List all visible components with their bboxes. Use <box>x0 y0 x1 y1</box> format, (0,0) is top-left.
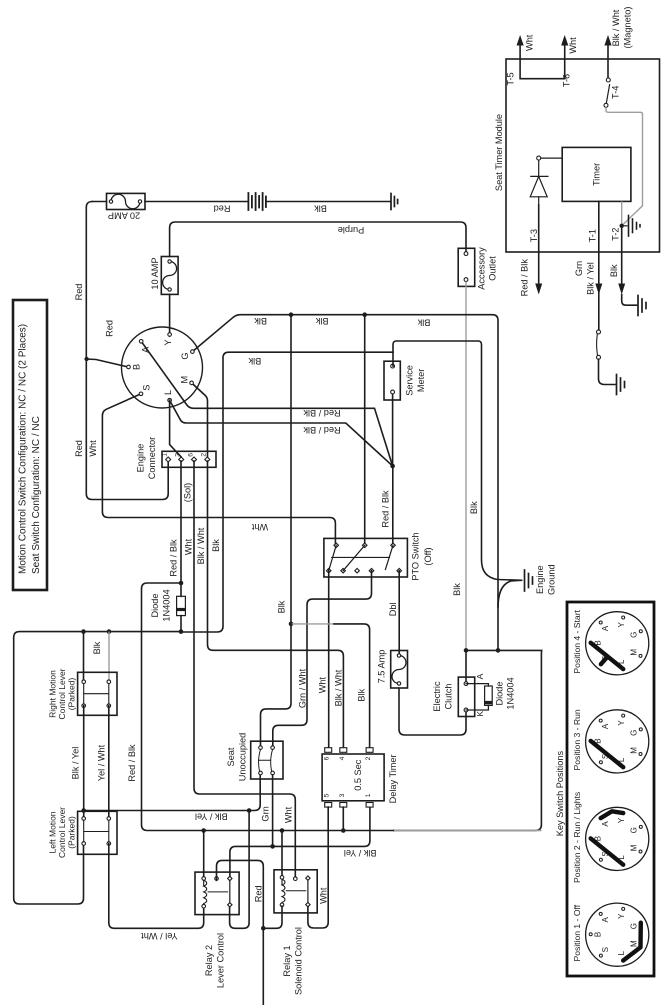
svg-text:Wht: Wht <box>525 34 535 51</box>
svg-text:Grn: Grn <box>574 261 584 276</box>
wire T-2 out with arrow to ground <box>621 226 623 283</box>
svg-text:Blk: Blk <box>609 264 619 277</box>
arrow T-5 out <box>516 35 523 46</box>
svg-text:2: 2 <box>201 453 208 457</box>
timer box <box>562 147 631 201</box>
svg-text:G: G <box>630 827 639 833</box>
wire grn row relay2 contact to delay timer 1 <box>230 807 370 877</box>
svg-text:A: A <box>601 916 610 922</box>
svg-text:Outlet: Outlet <box>488 256 498 281</box>
svg-text:Red: Red <box>74 440 84 457</box>
node bus to PTO riser <box>362 312 367 317</box>
svg-text:(Parked): (Parked) <box>67 816 77 849</box>
svg-text:Blk: Blk <box>277 600 287 613</box>
svg-text:20 AMP: 20 AMP <box>108 211 140 221</box>
svg-text:Y: Y <box>617 621 626 627</box>
svg-text:Red / Blk: Red / Blk <box>520 259 530 297</box>
svg-text:1N4004: 1N4004 <box>506 677 516 709</box>
ground chassis (seat switch) <box>617 375 625 395</box>
wire delay 3 down to coil row <box>342 807 344 830</box>
svg-text:Seat Switch Configuration: NC: Seat Switch Configuration: NC / NC <box>31 416 42 574</box>
svg-text:A: A <box>601 723 610 729</box>
wire seat bottom-right down to grn row <box>272 775 274 847</box>
wire left red rail: fuse to B-node to pin1 row <box>86 202 168 500</box>
svg-text:Blk: Blk <box>452 583 462 596</box>
svg-text:Unoccupied: Unoccupied <box>237 733 247 782</box>
node bus to seat riser <box>289 312 294 317</box>
svg-text:1: 1 <box>365 793 372 797</box>
node coil row at relay1 <box>280 828 285 833</box>
wire diode bottom to blk line <box>180 616 182 632</box>
svg-text:Blk / Yel: Blk / Yel <box>70 747 80 780</box>
wire PTO pin Dbl down to 7.5A fuse <box>398 571 400 656</box>
key position circle 4 <box>586 612 649 675</box>
node B branch <box>84 357 88 361</box>
right motion control lever switch SW3 <box>78 672 117 715</box>
svg-text:Connector: Connector <box>147 437 157 479</box>
svg-text:L: L <box>163 390 173 395</box>
svg-text:Ground: Ground <box>547 564 557 595</box>
diode D3 in module <box>530 156 562 205</box>
wire gray node down to right motion top-right pin <box>108 632 110 682</box>
svg-text:6: 6 <box>324 756 331 760</box>
wire B terminal branch <box>87 359 129 367</box>
wire relay1 coil riser <box>281 831 283 876</box>
battery BT1 plates <box>248 193 266 210</box>
accessory outlet J2 <box>458 248 475 286</box>
svg-text:Blk: Blk <box>356 688 366 701</box>
svg-text:1: 1 <box>162 453 169 457</box>
svg-text:T-1: T-1 <box>588 229 598 242</box>
wire A terminal long diagonal to Red/Blk upper <box>141 341 392 466</box>
svg-text:G: G <box>630 632 639 638</box>
key position circle 1 <box>586 903 649 966</box>
svg-text:A: A <box>475 673 485 679</box>
svg-text:(Parked): (Parked) <box>67 678 77 711</box>
svg-text:B: B <box>131 364 141 370</box>
svg-text:(Off): (Off) <box>423 547 433 565</box>
key switch SW1 circle <box>122 327 203 408</box>
svg-text:Red / Blk: Red / Blk <box>303 408 341 418</box>
wire 7.5A fuse bottom to clutch bottom <box>399 688 466 735</box>
wire purple: 10A fuse top to accessory outlet <box>170 222 466 257</box>
wire gray T-4 to T-2 junction <box>606 107 643 226</box>
svg-text:Y: Y <box>617 817 626 823</box>
wire PTO pin Wht down to delay timer 6 <box>328 571 330 748</box>
svg-text:Wht: Wht <box>318 887 328 904</box>
T-4 magneto wire and switch <box>604 35 612 107</box>
fuse F3 7.5 Amp <box>391 651 408 689</box>
key switch terminals and letters <box>127 333 195 402</box>
wire blk line far left loop to left motion lever <box>14 632 181 904</box>
svg-text:Grn: Grn <box>261 806 271 821</box>
svg-text:G: G <box>180 353 190 360</box>
wire junction down to relay2 contact bottom <box>230 811 250 929</box>
svg-text:Key Switch Positions: Key Switch Positions <box>555 751 565 837</box>
svg-text:Red / Blk: Red / Blk <box>303 425 341 435</box>
wire blk wire to service meter riser <box>181 352 394 632</box>
svg-text:Blk: Blk <box>314 204 327 214</box>
wire battery to ground <box>266 201 390 203</box>
svg-text:Blk: Blk <box>248 356 261 366</box>
svg-text:(Magneto): (Magneto) <box>623 7 633 49</box>
svg-text:Meter: Meter <box>416 369 426 393</box>
wire black bus tail into engine ground <box>498 580 522 607</box>
key position circle 3 <box>586 710 649 773</box>
svg-text:M: M <box>179 376 189 384</box>
wire T-2 gray from timer <box>621 201 623 225</box>
wire bus node down to seat junction <box>290 315 292 624</box>
svg-text:Wht: Wht <box>88 440 98 457</box>
wire L terminal to Red/Blk lower <box>170 400 393 466</box>
svg-text:2: 2 <box>365 756 372 760</box>
wire seat row horizontal <box>84 810 249 812</box>
svg-text:Red / Blk: Red / Blk <box>169 539 179 577</box>
svg-text:B: B <box>594 932 603 937</box>
ground chassis (T-2 external) <box>638 296 646 316</box>
wire relay2 coil riser <box>203 831 205 877</box>
svg-text:M: M <box>629 844 638 851</box>
node coil row at delay 3 <box>341 828 346 833</box>
svg-text:Accessory: Accessory <box>477 247 487 290</box>
seat switch SW5 (unoccupied) <box>251 741 283 779</box>
seat timer module box <box>506 59 660 252</box>
svg-text:Engine: Engine <box>535 565 545 594</box>
svg-text:G: G <box>630 730 639 736</box>
wire junction up to service meter bottom pin <box>392 392 394 466</box>
T-5 T-6 bracket <box>520 44 565 79</box>
node relay1 coil bottom join <box>261 926 266 931</box>
svg-text:K: K <box>475 711 485 717</box>
svg-text:A: A <box>140 346 150 353</box>
diode D1 1N4004 body <box>177 596 186 615</box>
svg-text:A: A <box>601 821 610 827</box>
svg-text:Blk: Blk <box>417 317 430 327</box>
wire service meter top to engine ground <box>393 341 522 580</box>
svg-text:Y: Y <box>163 340 173 346</box>
wire right motion to left motion (Yel/Wht) <box>108 706 110 819</box>
node pin3/red-blk branch <box>179 581 184 586</box>
svg-text:T-4: T-4 <box>611 86 621 99</box>
svg-text:(Sol): (Sol) <box>183 483 193 502</box>
node seat riser junction <box>289 622 294 627</box>
node black bus at clutch row <box>496 648 501 653</box>
seat switch on T-1 <box>597 330 601 359</box>
svg-text:Position 2 - Run / Lights: Position 2 - Run / Lights <box>572 792 582 883</box>
svg-text:Yel / Wht: Yel / Wht <box>96 744 106 781</box>
svg-text:Blk / Yel: Blk / Yel <box>195 812 228 822</box>
svg-text:Wht: Wht <box>251 522 268 532</box>
engine ground symbol <box>525 570 533 591</box>
svg-text:Red: Red <box>104 320 114 337</box>
svg-text:5: 5 <box>324 793 331 797</box>
wire T-3 out with arrow <box>538 205 540 283</box>
svg-text:Position 3 - Run: Position 3 - Run <box>572 709 582 770</box>
svg-text:Red: Red <box>214 204 231 214</box>
wire clutch node down to clutch top pin <box>465 650 467 683</box>
svg-text:Right Motion: Right Motion <box>48 670 58 718</box>
svg-text:Control Lever: Control Lever <box>57 807 67 858</box>
wire ground tail down to gray row <box>394 650 542 830</box>
wire PTO pin Grn/Wht jog down to seat top right <box>273 571 372 746</box>
svg-text:M: M <box>629 940 638 947</box>
node diode anode junction <box>179 629 184 634</box>
svg-text:Blk: Blk <box>315 316 328 326</box>
svg-text:Motion Control Switch Configur: Motion Control Switch Configuration: NC … <box>18 324 29 574</box>
svg-text:10 AMP: 10 AMP <box>150 257 160 289</box>
wire G terminal to black bus <box>192 315 498 651</box>
key position circle 2 <box>586 807 649 870</box>
relay 1 solenoid control K1 <box>274 870 317 913</box>
node service meter junction <box>390 464 395 469</box>
svg-text:Left Motion: Left Motion <box>48 811 58 853</box>
wire right motion to left motion (Blk/Yel) <box>83 706 85 819</box>
wire relay1 coil bottom to red feed <box>263 906 282 928</box>
ground chassis (battery) <box>391 194 398 210</box>
svg-text:Grn / Wht: Grn / Wht <box>297 668 307 708</box>
svg-text:Service: Service <box>404 365 414 396</box>
svg-text:0.5 Sec: 0.5 Sec <box>353 759 363 791</box>
node blk to right motion left pin <box>81 629 86 634</box>
wire L terminal to connector pin 3 <box>170 400 182 457</box>
left motion control lever switch SW4 <box>78 811 117 854</box>
arrow T-6 out <box>561 35 568 46</box>
node grn row junction <box>270 844 275 849</box>
node seat row junction <box>247 808 252 813</box>
wire delay 5 to relay1 contact bottom <box>308 807 328 928</box>
svg-text:Blk / Wht: Blk / Wht <box>196 527 206 564</box>
wire battery row from 20A fuse to battery <box>92 201 248 203</box>
svg-text:Blk: Blk <box>254 316 267 326</box>
contact bar B-L-S (start) <box>591 643 624 669</box>
svg-text:Clutch: Clutch <box>443 683 453 709</box>
svg-text:Yel / Wht: Yel / Wht <box>141 931 178 941</box>
electric clutch L1 <box>458 677 474 716</box>
svg-text:Control Lever: Control Lever <box>57 668 67 719</box>
svg-text:Blk: Blk <box>469 501 479 514</box>
svg-text:Red / Blk: Red / Blk <box>381 490 391 528</box>
fuse F2 10 AMP body <box>161 257 178 295</box>
svg-text:Blk / Yel: Blk / Yel <box>585 262 595 295</box>
svg-text:Wht: Wht <box>317 676 327 693</box>
svg-text:T-2: T-2 <box>610 228 620 241</box>
contact bars B-L and A-Y (run/lights) <box>591 838 624 864</box>
wire connector pin3 Sol down to diode <box>180 461 182 596</box>
delay timer U2 <box>322 748 384 807</box>
svg-text:Wht: Wht <box>568 37 578 54</box>
svg-text:Blk: Blk <box>92 641 102 654</box>
svg-text:Dbl: Dbl <box>388 602 398 616</box>
svg-text:Blk / Yel: Blk / Yel <box>344 848 377 858</box>
node T-2 ground junction <box>620 224 624 228</box>
wire branch to left riser <box>142 583 395 831</box>
svg-text:3: 3 <box>339 793 346 797</box>
svg-text:Lever Control: Lever Control <box>216 933 226 988</box>
svg-text:4: 4 <box>339 756 346 760</box>
svg-text:M: M <box>629 747 638 754</box>
svg-text:T-6: T-6 <box>562 74 572 87</box>
svg-text:1N4004: 1N4004 <box>161 589 171 621</box>
wire relay2 NO contact to Red solenoid feed <box>217 860 264 1005</box>
node coil row at relay2 <box>201 828 206 833</box>
ground chassis (module internal) <box>622 216 640 237</box>
wire left motion bottom right to relay2 coil (Yel/Wht) <box>109 844 204 929</box>
wire gray accessory outlet down to clutch node <box>465 282 467 651</box>
wire M terminal to engine connector pin 2 <box>192 383 208 460</box>
svg-text:Seat: Seat <box>226 747 236 766</box>
node gray wire to clutch top <box>464 648 469 653</box>
svg-text:M: M <box>629 649 638 656</box>
svg-text:Delay Timer: Delay Timer <box>388 754 398 803</box>
wire connector pin2 Blk/Wht down around to delay timer 4 <box>208 461 344 748</box>
wire bus node down to PTO top pin 2 <box>364 315 366 546</box>
svg-text:T-3: T-3 <box>529 229 539 242</box>
svg-text:Y: Y <box>617 720 626 726</box>
svg-text:Electric: Electric <box>432 681 442 712</box>
svg-text:7.5 Amp: 7.5 Amp <box>376 650 386 684</box>
svg-text:Blk / Wht: Blk / Wht <box>611 9 621 46</box>
svg-text:PTO Switch: PTO Switch <box>411 532 421 580</box>
wire clutch node right to engine ground tail <box>466 649 542 651</box>
svg-text:Seat Timer Module: Seat Timer Module <box>494 114 504 191</box>
wire black segment to delay timer 2 <box>334 624 370 748</box>
PTO switch SW2 <box>324 538 408 577</box>
service meter M1 <box>384 361 400 400</box>
wire Y terminal to 10A fuse <box>169 294 171 336</box>
diode D2 1N4004 across clutch <box>466 684 492 710</box>
configuration note box <box>13 300 47 590</box>
svg-text:Timer: Timer <box>592 163 602 186</box>
svg-text:Relay 2: Relay 2 <box>204 945 214 976</box>
contact bar B-L (run) <box>591 741 624 767</box>
svg-text:Y: Y <box>617 913 626 919</box>
svg-text:Red: Red <box>253 885 263 902</box>
engine connector J1 <box>162 451 217 467</box>
wire seat riser to seat switch top left <box>261 624 292 746</box>
contact bar G-M-L (off) <box>623 923 641 961</box>
svg-text:6: 6 <box>187 453 194 457</box>
svg-text:3: 3 <box>175 453 182 457</box>
svg-text:Wht: Wht <box>283 806 293 823</box>
wire pin6 Wht down to relay1 contact top <box>194 461 295 877</box>
svg-text:Blk: Blk <box>211 539 221 552</box>
node blk/yel to seat row <box>81 808 86 813</box>
wire node down to right motion top-left pin <box>83 632 85 682</box>
svg-text:Purple: Purple <box>338 225 365 235</box>
svg-text:Position 4 - Start: Position 4 - Start <box>572 609 582 673</box>
wire gray coil row segment <box>394 830 541 832</box>
wire junction to seat bottom-left pin <box>249 775 260 811</box>
wire T-1 from timer to seat switch <box>598 201 600 330</box>
svg-text:Diode: Diode <box>150 593 160 617</box>
node blk to right motion right pin <box>107 629 112 634</box>
wire S terminal white to PTO top pin 1 <box>102 394 335 545</box>
wire junction down to PTO top pin 3 <box>392 466 394 545</box>
svg-text:Diode: Diode <box>495 681 505 705</box>
svg-text:Red / Blk: Red / Blk <box>127 744 137 782</box>
relay 2 lever control K2 <box>195 872 239 915</box>
svg-text:Position 1 - Off: Position 1 - Off <box>572 904 582 961</box>
svg-text:Relay 1: Relay 1 <box>282 945 292 976</box>
svg-text:T-5: T-5 <box>506 72 516 85</box>
wire T-1 seat switch to ground <box>599 359 616 384</box>
svg-text:Engine: Engine <box>135 444 145 473</box>
fuse F1 20 AMP body <box>107 193 146 209</box>
svg-text:G: G <box>630 923 639 929</box>
svg-text:Blk / Wht: Blk / Wht <box>333 669 343 706</box>
key switch positions panel <box>567 602 654 976</box>
svg-text:Red: Red <box>74 284 84 301</box>
svg-text:A: A <box>601 625 610 631</box>
svg-text:L: L <box>617 950 626 955</box>
svg-text:S: S <box>141 385 151 391</box>
svg-text:Solenoid Control: Solenoid Control <box>294 927 304 995</box>
svg-text:S: S <box>601 947 610 952</box>
svg-text:Wht: Wht <box>184 538 194 555</box>
wire gray segment from junction <box>291 623 334 625</box>
